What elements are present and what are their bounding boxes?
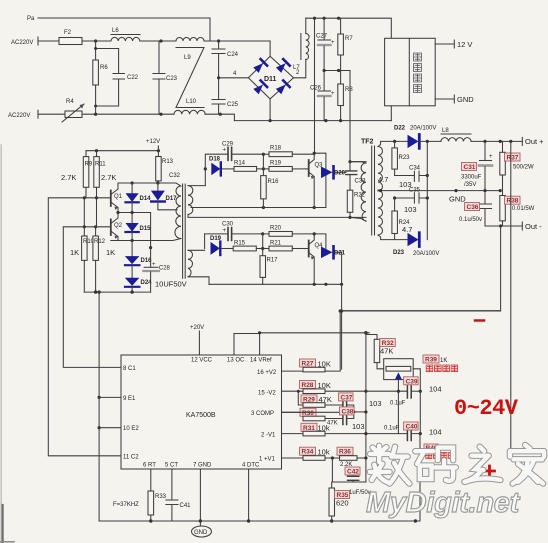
resistor R37 [500, 141, 506, 190]
wire TF2 primary bottom lead [350, 217, 366, 221]
junction bottom AC rail [94, 113, 222, 116]
capacitor C35 [395, 188, 429, 204]
label C42 [345, 467, 360, 476]
label R28 [300, 381, 331, 391]
capacitor C38 [343, 412, 354, 425]
wire output sense return [340, 309, 501, 312]
transformer L9 L10 common-mode choke [174, 38, 205, 115]
value 10UF50V [155, 280, 187, 289]
svg-text:13 OC: 13 OC [227, 358, 245, 364]
svg-text:C33: C33 [355, 179, 367, 185]
wire Out+ sense drop [510, 141, 512, 450]
capacitor C25 [212, 78, 239, 114]
svg-text:3 COMP: 3 COMP [251, 411, 274, 417]
svg-text:R38: R38 [507, 198, 519, 205]
svg-text:L10: L10 [186, 99, 197, 105]
scan edge artifact [0, 145, 14, 543]
label R37 [505, 153, 521, 162]
wire R4 to L10 [82, 113, 174, 115]
wire +12V rail [86, 149, 160, 152]
svg-text:+: + [489, 154, 493, 160]
value 4.7 R24 [402, 225, 412, 234]
svg-text:R31: R31 [303, 425, 315, 432]
wire D18 node up to C29 row [205, 154, 227, 169]
resistor R30 [298, 412, 342, 426]
svg-text:R21: R21 [270, 241, 282, 247]
terminal Out- [522, 222, 542, 231]
svg-text:R13: R13 [162, 159, 174, 165]
label C38 [340, 407, 355, 416]
value 500/2W [513, 165, 534, 171]
svg-text:R9: R9 [85, 162, 93, 168]
svg-text:C29: C29 [222, 142, 234, 148]
capacitor C34 [395, 166, 429, 182]
wire Q1 emitter / Q2 collector row [116, 211, 150, 241]
transistor Q4 [306, 234, 323, 284]
svg-text:F2: F2 [64, 30, 72, 36]
wire midpoint row [323, 69, 351, 72]
value F=37KHZ [113, 502, 139, 508]
svg-text:R7: R7 [345, 36, 353, 42]
wire Q1 base to pin C2 [48, 198, 121, 456]
wire L6 to L9 [140, 40, 176, 42]
watermark shumazhijia [370, 445, 544, 484]
svg-text:+: + [223, 228, 227, 234]
svg-text:F=37KHZ: F=37KHZ [113, 502, 139, 508]
svg-text:AC220V: AC220V [8, 113, 30, 119]
svg-text:+12V: +12V [146, 139, 160, 145]
capacitor C22 [94, 47, 139, 108]
value 103 comp [352, 422, 365, 431]
wire diode cathode column [426, 141, 428, 239]
bridge rectifier D11 [248, 56, 293, 99]
junction GND mid rail [454, 189, 501, 192]
diode D19 [210, 236, 222, 255]
label R27 [300, 359, 331, 369]
node plus red [485, 466, 495, 476]
svg-text:R16: R16 [268, 179, 280, 185]
resistor R18 [263, 146, 314, 157]
pin 5 CT [165, 463, 178, 501]
label C36 [465, 203, 480, 212]
wire aux box bottom lead [390, 106, 392, 121]
wire Q4 collector node [313, 232, 326, 252]
svg-text:20A/100V: 20A/100V [410, 126, 436, 132]
svg-text:D17: D17 [166, 196, 178, 202]
wire OC VRef feedback row [234, 331, 369, 335]
svg-text:D19: D19 [210, 236, 222, 242]
wire Q2 base to pin C1 [63, 227, 121, 368]
pin 16 +V2 [257, 370, 303, 376]
svg-text:12 V: 12 V [457, 40, 472, 49]
resistor R22 [347, 190, 365, 219]
wire DC+ top rail [306, 18, 392, 38]
svg-text:R37: R37 [507, 155, 519, 162]
value 0.1u/50v [459, 217, 482, 223]
terminal +12V aux output [435, 40, 472, 49]
fuse F2 [59, 30, 82, 45]
node +20V [190, 325, 204, 331]
diode D18 [204, 157, 221, 186]
junction base rows [83, 196, 98, 228]
inductor L6 [111, 28, 140, 41]
svg-text:L9: L9 [184, 55, 191, 61]
wire AC line1 to fuse [38, 40, 59, 42]
svg-text:6 RT: 6 RT [143, 463, 156, 469]
resistor R35 [329, 482, 335, 521]
inductor L7 [293, 34, 309, 72]
label current adjust red [426, 365, 458, 372]
pin 1 +V1 [259, 457, 303, 463]
wire Q2 emitter row [111, 239, 152, 249]
svg-text:R19: R19 [270, 161, 282, 167]
label R34 [300, 447, 330, 456]
capacitor C36 [480, 191, 492, 226]
svg-text:C30: C30 [222, 222, 234, 228]
resistor R31 [303, 431, 398, 436]
svg-text:2.7K: 2.7K [61, 173, 76, 182]
wire D21 feedback drop [341, 252, 343, 369]
resistor R23 [392, 141, 410, 175]
wire Pa top line [38, 18, 210, 41]
svg-text:MyDigit.net: MyDigit.net [366, 487, 521, 519]
svg-text:R36: R36 [339, 449, 351, 456]
svg-text:R11: R11 [95, 162, 106, 168]
node +12V [146, 139, 160, 151]
wire Q1 collector rail [118, 181, 181, 186]
label R35 [335, 491, 350, 508]
watermark MyDigit.net [366, 487, 521, 519]
wire TF1 lower sec bottom lead [188, 277, 209, 285]
capacitor C23 [153, 41, 178, 114]
value 104 C39 [429, 385, 442, 394]
resistor R7 [338, 18, 354, 70]
svg-text:4 DTC: 4 DTC [242, 463, 260, 469]
pin 3 COMP [251, 411, 303, 417]
junction D22 output [393, 140, 429, 143]
wire DC- bottom rail [234, 119, 391, 122]
pin 2 -V1 [261, 433, 303, 439]
capacitor C33 [346, 162, 366, 191]
wire C30 to R20 junction [232, 232, 269, 250]
thermistor R4 [62, 99, 84, 122]
svg-text:C42: C42 [347, 469, 359, 476]
wire TF1 lower sec top lead [188, 249, 205, 251]
resistor R36 [340, 456, 366, 468]
transistor Q2 [111, 213, 123, 241]
svg-text:R20: R20 [270, 226, 282, 232]
wire TF2 secondary bottom to D23 [378, 235, 407, 240]
svg-text:Out +: Out + [525, 137, 544, 146]
inductor L8 [441, 128, 471, 141]
svg-text:5 CT: 5 CT [165, 463, 178, 469]
svg-text:+: + [223, 148, 227, 154]
value 104 C40 [429, 428, 442, 437]
svg-text:R15: R15 [234, 241, 246, 247]
resistor R32 [366, 333, 386, 369]
diode D14 [126, 183, 152, 213]
svg-text:C35: C35 [409, 188, 421, 194]
value 103 C35 [404, 205, 417, 214]
terminal AC220V line2 [8, 110, 38, 119]
capacitor C40 [398, 427, 420, 441]
svg-text:GND: GND [457, 95, 474, 104]
svg-text:L8: L8 [442, 128, 449, 134]
svg-text:C23: C23 [166, 76, 178, 82]
svg-text:C40: C40 [406, 424, 418, 431]
diode D20 [321, 166, 346, 178]
svg-text:10UF50V: 10UF50V [155, 280, 187, 289]
resistor R16 [261, 169, 279, 208]
resistor R21 [263, 241, 306, 251]
svg-text:C37: C37 [341, 394, 353, 401]
wire VRef vertical feed [364, 333, 367, 482]
diode D22 [394, 126, 441, 149]
ground symbol [192, 521, 212, 537]
wire C29 to R18 junction [232, 153, 265, 171]
resistor R9 [83, 151, 93, 198]
snubber node row TF2 top [348, 160, 366, 163]
resistor R8 [338, 71, 354, 121]
value 0.1uF C39 [390, 401, 406, 407]
label R31 [301, 423, 330, 432]
pin 11 C2 [123, 455, 139, 461]
value 0.01/5W [512, 206, 535, 212]
junction DC+ rail [313, 17, 340, 20]
svg-text:KA7500B: KA7500B [186, 412, 216, 419]
terminal Out+ [522, 137, 544, 146]
resistor R33 [148, 491, 167, 521]
wire upper sec tap row A [191, 206, 326, 209]
pin 10 E2 [99, 426, 139, 432]
wire Q4 emitter row [209, 283, 343, 286]
svg-text:47K: 47K [380, 347, 393, 356]
svg-text:104: 104 [429, 385, 442, 394]
wire TF2 secondary top to D22 [378, 141, 407, 146]
wire Q3 collector node [313, 152, 328, 208]
resistor R34 [303, 456, 340, 461]
svg-text:+: + [331, 91, 335, 97]
svg-text:D18: D18 [209, 157, 221, 163]
diode D17 [151, 180, 177, 210]
potentiometer current adjust [384, 359, 421, 391]
wire TF1 primary bottom lead [151, 239, 181, 241]
node 2 wire bridge right to L7 [294, 59, 306, 78]
pin 15 -V2 [258, 391, 303, 397]
label R39 [423, 355, 447, 364]
pin 4 DTC [242, 463, 260, 522]
wire TF1 upper sec bottom lead row [188, 216, 366, 218]
pin 13 OC [227, 334, 245, 364]
svg-text:C41: C41 [180, 503, 192, 509]
label R38 [505, 196, 521, 205]
svg-text:D15: D15 [140, 226, 152, 232]
capacitor C30 [222, 222, 234, 241]
svg-text:2.7K: 2.7K [101, 173, 116, 182]
svg-text:C25: C25 [227, 102, 239, 108]
node Pa [27, 16, 35, 22]
pin 8 C1 [123, 366, 136, 372]
pin 14 VRef [250, 333, 272, 364]
svg-text:D11: D11 [264, 76, 277, 83]
wire R6 bottom to AC rail [95, 106, 97, 114]
svg-text:C31: C31 [464, 164, 476, 171]
svg-text:R4: R4 [66, 99, 74, 105]
svg-text:7 GND: 7 GND [193, 463, 212, 469]
svg-text:15 -V2: 15 -V2 [258, 391, 276, 397]
svg-text:GND: GND [449, 195, 466, 204]
capacitor C27 [316, 18, 335, 70]
svg-text:L7: L7 [293, 65, 300, 71]
resistor R29 [297, 390, 343, 408]
svg-text:12 VCC: 12 VCC [191, 358, 213, 364]
svg-text:10k: 10k [318, 448, 330, 457]
svg-text:0~24V: 0~24V [454, 396, 519, 421]
wire COMP to caps node [282, 410, 366, 413]
value 2.7K labels [61, 173, 116, 182]
svg-text:0.1uF: 0.1uF [384, 426, 400, 432]
capacitor C29 [222, 142, 234, 161]
svg-text:R28: R28 [302, 382, 314, 389]
svg-text:0.1u/50v: 0.1u/50v [459, 217, 482, 223]
svg-text:10 E2: 10 E2 [123, 426, 139, 432]
svg-text:C39: C39 [406, 378, 418, 385]
svg-text:R39: R39 [425, 357, 437, 364]
diode D24 [125, 278, 152, 292]
resistor R20 [269, 226, 314, 237]
svg-text:R14: R14 [234, 161, 246, 167]
pin 7 GND [193, 463, 212, 522]
wire Q3 collector riser [314, 18, 316, 153]
resistor R15 [222, 241, 263, 251]
svg-text:C38: C38 [342, 408, 354, 415]
wire TF1 upper sec top lead [188, 185, 205, 187]
svg-text:1K: 1K [70, 248, 79, 257]
wire F2 to L6 [82, 40, 111, 42]
svg-text:1K: 1K [440, 358, 447, 364]
svg-text:11 C2: 11 C2 [123, 455, 139, 461]
value 0.1uF C40 [384, 426, 400, 432]
wire R34 branch down [332, 458, 366, 482]
svg-text:D14: D14 [140, 196, 152, 202]
capacitor C24 [212, 41, 239, 78]
svg-text:8 C1: 8 C1 [123, 366, 136, 372]
svg-text:C24: C24 [227, 52, 239, 58]
svg-text:+20V: +20V [190, 325, 204, 331]
svg-text:R23: R23 [399, 155, 411, 161]
resistor R14 [222, 161, 263, 172]
svg-text:GND: GND [194, 530, 208, 536]
diode D21 [321, 246, 346, 258]
svg-text:TF2: TF2 [361, 139, 374, 146]
resistor R38 [500, 191, 506, 226]
capacitor C31 electrolytic [479, 141, 493, 190]
wire C30 row [205, 234, 228, 249]
svg-text:2 -V1: 2 -V1 [261, 433, 276, 439]
resistor R12 [93, 227, 106, 292]
svg-text:500/2W: 500/2W [513, 165, 534, 171]
resistor R6 [93, 41, 109, 106]
pin 9 E1 [99, 396, 136, 402]
wire L8 to Out+ [471, 140, 522, 143]
wire Out- sense down [342, 226, 501, 311]
transformer TF1 drive [175, 184, 193, 278]
svg-text:620: 620 [336, 499, 349, 508]
svg-text:20A/100V: 20A/100V [413, 251, 439, 257]
svg-text:Q2: Q2 [114, 223, 123, 229]
capacitor C37 [343, 400, 354, 412]
wire AC line2 to R4 [38, 113, 65, 115]
svg-text:D20: D20 [334, 171, 346, 177]
wire L9 to bridge top [204, 40, 270, 42]
diode D16 [125, 241, 152, 278]
svg-text:16 +V2: 16 +V2 [257, 370, 277, 376]
value 103 C34 [399, 180, 412, 189]
label R30 [300, 408, 316, 417]
wire driver row down to IC E pins [98, 292, 101, 521]
svg-text:R22: R22 [354, 193, 366, 199]
wire bridge bottom to DC rail [269, 99, 271, 121]
label R36 [337, 447, 353, 456]
svg-text:103: 103 [369, 399, 382, 408]
capacitor C39 [407, 384, 420, 398]
svg-text:14 VRef: 14 VRef [250, 358, 272, 364]
svg-text:C32: C32 [169, 173, 181, 179]
wire TF2 primary top lead [350, 162, 366, 163]
capacitor C42 [348, 472, 359, 483]
terminal GND aux output [435, 95, 474, 104]
capacitor C32 [169, 173, 181, 179]
wire wiper column [397, 391, 399, 433]
svg-text:R8: R8 [345, 87, 353, 93]
transistor Q3 [306, 153, 323, 207]
wire midpoint to snubber column [349, 71, 351, 162]
pin 6 RT [143, 463, 156, 492]
junction top rail [94, 39, 220, 42]
capacitor C28 [143, 241, 170, 293]
resistor R13 [156, 151, 174, 183]
svg-text:R33: R33 [155, 494, 167, 500]
svg-text:0.1uF: 0.1uF [390, 401, 406, 407]
resistor R28 [303, 389, 366, 394]
svg-text:3300uF: 3300uF [461, 175, 482, 181]
svg-text:9 E1: 9 E1 [123, 396, 136, 402]
svg-text:C28: C28 [159, 266, 171, 272]
diode D23 [393, 233, 439, 257]
node minus red [475, 319, 484, 322]
svg-text:R34: R34 [302, 449, 314, 456]
svg-text:104: 104 [429, 428, 442, 437]
svg-text:4.7: 4.7 [402, 225, 412, 234]
node GND label [449, 195, 466, 204]
auxiliary supply box [385, 38, 436, 106]
terminal AC220V line1 [11, 37, 38, 46]
wire bottom GND rail [99, 519, 420, 522]
svg-text:Out -: Out - [525, 222, 542, 231]
svg-text:0.01/5W: 0.01/5W [512, 206, 535, 212]
svg-text:/35V: /35V [464, 182, 476, 188]
svg-text:1 +V1: 1 +V1 [259, 457, 276, 463]
wire bridge top to AC rail [269, 41, 271, 56]
svg-text:C22: C22 [127, 75, 139, 81]
svg-text:Q1: Q1 [114, 194, 123, 200]
svg-text:R6: R6 [100, 65, 108, 71]
value 103 R32 [369, 399, 382, 408]
wire L10 right [205, 114, 234, 120]
svg-text:C36: C36 [467, 204, 479, 211]
resistor R10 [82, 198, 95, 292]
svg-text:D21: D21 [334, 251, 346, 257]
